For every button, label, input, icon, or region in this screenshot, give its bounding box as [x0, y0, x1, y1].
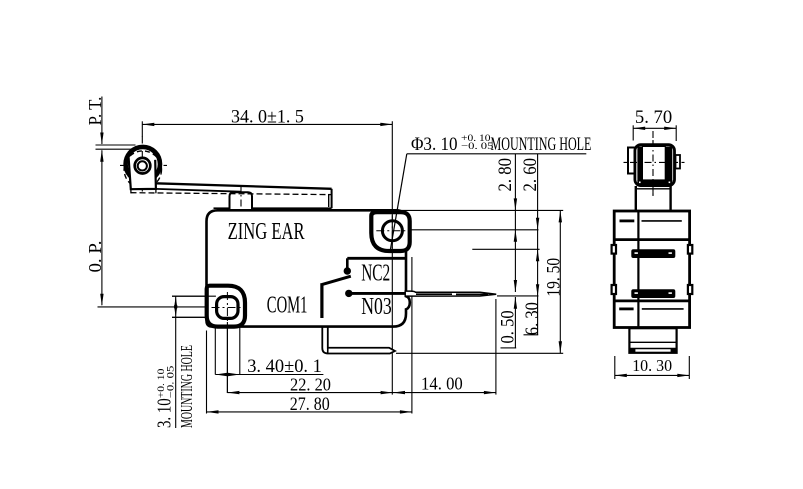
svg-text:MOUNTING HOLE: MOUNTING HOLE — [179, 345, 197, 428]
svg-text:−0. 05: −0. 05 — [166, 365, 176, 398]
svg-text:MOUNTING HOLE: MOUNTING HOLE — [491, 135, 592, 155]
svg-text:22. 20: 22. 20 — [290, 375, 331, 395]
svg-text:−0. 05: −0. 05 — [461, 142, 494, 152]
svg-text:COM1: COM1 — [267, 292, 308, 319]
svg-text:2. 60: 2. 60 — [519, 158, 540, 192]
svg-text:0. P.: 0. P. — [85, 241, 105, 273]
svg-text:34. 0±1. 5: 34. 0±1. 5 — [231, 106, 304, 126]
svg-text:19. 50: 19. 50 — [543, 258, 564, 297]
svg-text:5. 70: 5. 70 — [635, 107, 672, 128]
svg-text:14. 00: 14. 00 — [421, 374, 463, 393]
svg-text:3. 10: 3. 10 — [152, 398, 175, 428]
svg-text:Φ3. 10: Φ3. 10 — [411, 133, 458, 154]
svg-text:27. 80: 27. 80 — [290, 394, 330, 414]
svg-text:ZING EAR: ZING EAR — [228, 219, 305, 245]
svg-text:2. 80: 2. 80 — [494, 158, 515, 192]
svg-text:10. 30: 10. 30 — [632, 357, 672, 375]
svg-text:N03: N03 — [361, 293, 391, 320]
svg-text:0. 50: 0. 50 — [497, 310, 518, 343]
svg-text:P. T.: P. T. — [85, 97, 105, 126]
svg-text:NC2: NC2 — [361, 260, 390, 286]
svg-text:6. 30: 6. 30 — [521, 302, 542, 335]
